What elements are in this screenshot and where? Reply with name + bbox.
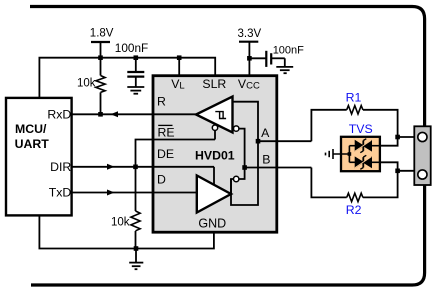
diode TVS pair top bbox=[349, 139, 380, 153]
wire receiver input A bbox=[231, 102, 258, 205]
svg-text:D: D bbox=[157, 173, 166, 187]
capacitor C1 100nF bbox=[127, 58, 144, 87]
svg-text:R1: R1 bbox=[346, 90, 362, 104]
bubble driver inverting out bbox=[234, 176, 239, 181]
wire B dropper bbox=[311, 168, 346, 198]
wire RE enable stem bbox=[214, 130, 216, 139]
MCU/UART box bbox=[6, 98, 72, 215]
svg-text:TVS: TVS bbox=[349, 122, 373, 136]
node junction pull-up/RxD bbox=[98, 112, 103, 117]
arrow right on DE line bbox=[107, 164, 115, 170]
wire B out bbox=[245, 167, 312, 169]
hysteresis glyph bbox=[215, 112, 226, 119]
node junction B/connector bbox=[395, 169, 400, 174]
connector pin 1 bbox=[418, 132, 427, 141]
resistor R2 bbox=[347, 193, 363, 201]
capacitor C2 100nF bbox=[249, 51, 284, 67]
svg-text:100nF: 100nF bbox=[273, 45, 304, 57]
svg-text:1.8V: 1.8V bbox=[90, 27, 114, 39]
wire 1.8V rail bbox=[39, 58, 215, 99]
svg-text:DE: DE bbox=[157, 147, 174, 161]
node junction TVS bus bbox=[348, 152, 352, 156]
svg-text:10k: 10k bbox=[77, 78, 96, 90]
resistor 10k pull-up bbox=[96, 58, 105, 115]
node junction cap1/rail bbox=[134, 55, 139, 60]
wire R1 to connector bbox=[363, 110, 398, 146]
supply 3.3V bar bbox=[239, 41, 258, 43]
wire RxD to R bbox=[72, 113, 197, 115]
svg-text:3.3V: 3.3V bbox=[238, 28, 262, 40]
bubble RE enable bbox=[212, 125, 217, 130]
wire 1.8V stem bbox=[100, 42, 102, 58]
wire Vcc stem bbox=[248, 42, 250, 75]
svg-text:B: B bbox=[262, 153, 270, 167]
arrow right on D line bbox=[107, 190, 115, 196]
wire receiver input B bbox=[239, 129, 245, 168]
svg-text:GND: GND bbox=[198, 217, 226, 231]
wire A out bbox=[258, 140, 311, 142]
node junction 3.3V/cap2 bbox=[247, 56, 252, 61]
wire to pin1 bbox=[398, 136, 419, 138]
svg-text:RE: RE bbox=[158, 125, 175, 139]
node junction A bbox=[256, 139, 261, 144]
wire DE internal bbox=[153, 166, 214, 168]
wire A riser bbox=[311, 110, 346, 141]
diode TVS pair bottom bbox=[349, 155, 380, 169]
node junction VL stem bbox=[177, 55, 182, 60]
ground TVS (rotated) bbox=[326, 149, 350, 159]
wire ground rail bbox=[39, 216, 214, 249]
svg-text:A: A bbox=[261, 126, 270, 140]
resistor R1 bbox=[347, 106, 363, 114]
wire driver out stub bbox=[231, 179, 234, 194]
node junction A/connector bbox=[395, 135, 400, 140]
ground main bbox=[129, 249, 143, 270]
driver amp bbox=[197, 176, 231, 213]
connector J1 bbox=[414, 126, 430, 185]
wire DE drop bbox=[213, 167, 215, 186]
wire R internal bbox=[153, 113, 197, 115]
svg-text:R: R bbox=[157, 94, 166, 108]
node junction DIR/pulldown bbox=[133, 165, 138, 170]
wire D internal bbox=[153, 192, 198, 194]
wire TVS internal bus bbox=[348, 146, 350, 163]
svg-text:DIR: DIR bbox=[50, 160, 71, 174]
wire TxD to D bbox=[72, 192, 198, 194]
wire RE internal bbox=[153, 139, 215, 141]
svg-text:MCU/: MCU/ bbox=[15, 122, 47, 136]
TVS box bbox=[341, 137, 380, 171]
svg-text:SLR: SLR bbox=[202, 77, 226, 91]
node junction B bbox=[242, 165, 247, 170]
svg-text:100nF: 100nF bbox=[115, 41, 148, 55]
wire R2 to connector bbox=[363, 162, 398, 197]
wire RE tie bbox=[136, 140, 216, 167]
svg-text:R2: R2 bbox=[346, 203, 362, 217]
wire VL stem bbox=[178, 58, 180, 75]
svg-text:RxD: RxD bbox=[47, 107, 71, 121]
resistor 10k pull-down bbox=[131, 167, 140, 249]
svg-text:UART: UART bbox=[15, 137, 50, 151]
receiver amp bbox=[196, 97, 233, 133]
ground under C2 bbox=[276, 67, 293, 73]
wire to pin2 bbox=[398, 170, 419, 172]
node junction gnd rail bbox=[134, 246, 139, 251]
arrow left on R line bbox=[111, 111, 119, 117]
bubble receiver inverting input bbox=[234, 126, 239, 131]
connector pin 2 bbox=[418, 170, 427, 179]
svg-text:TxD: TxD bbox=[49, 185, 72, 199]
ground under C1 bbox=[127, 87, 144, 94]
svg-text:10k: 10k bbox=[111, 217, 130, 229]
wire driver inverting link bbox=[239, 168, 245, 180]
wire DIR to DE bbox=[72, 166, 215, 168]
supply 1.8V bar bbox=[91, 41, 110, 43]
node junction 1.8V/rail bbox=[98, 55, 103, 60]
IC HVD01 body bbox=[153, 76, 277, 233]
svg-text:HVD01: HVD01 bbox=[195, 148, 235, 162]
